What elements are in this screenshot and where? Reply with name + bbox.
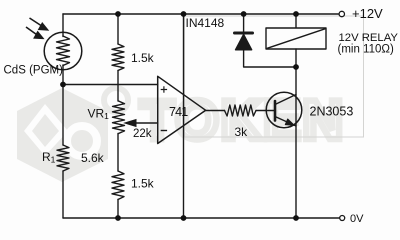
svg-text:CdS (PGM): CdS (PGM): [4, 65, 64, 77]
wiper arrowhead VR1: [125, 120, 136, 127]
op-amp plus symbol: [161, 86, 167, 130]
svg-text:(min 110Ω): (min 110Ω): [338, 44, 394, 56]
wire top rail +12V: [63, 13, 339, 15]
diode IN4148: [235, 32, 253, 35]
svg-text:22k: 22k: [133, 128, 152, 140]
node bottom rail emitter: [293, 215, 299, 221]
wire left column top: [62, 14, 64, 37]
wire middle column supply: [183, 14, 185, 218]
svg-text:12V RELAY: 12V RELAY: [339, 32, 399, 44]
svg-text:+12V: +12V: [352, 6, 383, 21]
node bottom rail col2: [115, 215, 121, 221]
node top rail col2: [115, 11, 121, 17]
resistor 1.5k top: [112, 44, 124, 71]
watermark frame: [185, 16, 364, 137]
wire relay column top: [295, 14, 297, 28]
wire column2 bottom: [117, 200, 119, 219]
wire column2 top: [117, 14, 119, 44]
node top rail diode: [241, 11, 247, 17]
svg-text:5.6k: 5.6k: [81, 151, 105, 165]
op-amp minus symbol: [161, 130, 167, 132]
node top rail relay: [293, 11, 299, 17]
terminal 0V: [340, 216, 345, 221]
node top rail col3: [181, 11, 187, 17]
wire column2 middle: [117, 71, 119, 102]
wire column2 lower: [117, 134, 119, 172]
op-amp U1 741: [158, 76, 206, 143]
transistor Q1 2N3053: [266, 92, 302, 128]
node CdS R1 divider: [60, 82, 66, 88]
node diode relay collector: [293, 64, 299, 70]
light arrows onto CdS: [26, 18, 48, 38]
wire op-amp non-inverting input: [63, 84, 158, 86]
svg-text:741: 741: [169, 105, 188, 119]
wire diode anode: [244, 50, 296, 67]
node bottom rail col3: [181, 215, 187, 221]
wire relay to collector to 0V: [295, 49, 297, 218]
svg-text:IN4148: IN4148: [186, 16, 225, 30]
svg-text:3k: 3k: [235, 125, 249, 139]
wire diode column top: [243, 14, 245, 32]
watermark logo hexagon: [17, 88, 128, 182]
terminal +12V: [339, 11, 344, 16]
svg-text:0V: 0V: [350, 213, 364, 225]
wire left column bottom: [62, 171, 64, 218]
resistor R1 5.6k: [57, 145, 69, 171]
svg-text:TOKEN: TOKEN: [140, 88, 345, 151]
svg-text:2N3053: 2N3053: [310, 105, 354, 119]
svg-text:1.5k: 1.5k: [131, 177, 155, 191]
wire bottom rail 0V: [63, 217, 340, 219]
svg-text:1.5k: 1.5k: [131, 51, 155, 65]
photoresistor CdS (PGM): [44, 32, 82, 70]
relay coil K1: [266, 28, 326, 49]
wire to transistor base: [256, 110, 275, 112]
wire op-amp output: [206, 110, 225, 112]
wire VR1 wiper to op-amp inverting input: [128, 122, 158, 124]
resistor 1.5k bottom: [112, 171, 124, 200]
resistor 3k: [225, 105, 257, 116]
potentiometer VR1 22k: [113, 101, 125, 134]
wire left column below CdS: [62, 65, 64, 145]
